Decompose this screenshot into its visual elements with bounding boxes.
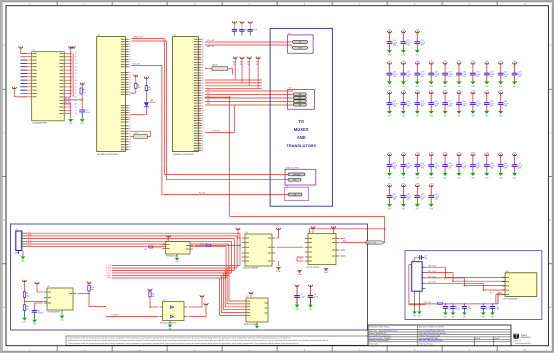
svg-text:10: 10 [202, 39, 204, 41]
svg-text:U4: U4 [246, 232, 248, 234]
svg-text:14: 14 [202, 115, 204, 117]
capacitor C33 0.1uF bypass [401, 153, 412, 180]
svg-text:RN1 22: RN1 22 [213, 65, 218, 67]
svg-text:16: 16 [75, 73, 77, 75]
capacitor C15 box2 [490, 303, 500, 319]
svg-text:PD: PD [285, 185, 288, 187]
power flag above U1 pin1 [19, 46, 27, 53]
svg-text:11: 11 [202, 75, 204, 77]
svg-text:15: 15 [75, 70, 77, 72]
svg-text:12: 12 [202, 70, 204, 72]
ground under U7 [255, 322, 259, 329]
svg-text:OSC_CLK1: OSC_CLK1 [428, 271, 436, 273]
svg-text:17: 17 [202, 148, 204, 150]
section box oscillator [405, 251, 542, 320]
svg-text:11: 11 [129, 66, 131, 68]
svg-text:10: 10 [129, 125, 131, 127]
svg-text:0.1uF: 0.1uF [253, 30, 257, 32]
wire into U9 top-left [149, 297, 158, 308]
ground under U9 [168, 321, 173, 331]
svg-text:2: 2 [421, 272, 422, 274]
svg-text:SN74AVC1T45: SN74AVC1T45 [166, 255, 177, 258]
svg-text:x_TRST: x_TRST [26, 243, 32, 245]
power flag above U1 right bus [69, 46, 76, 53]
svg-text:11: 11 [202, 41, 204, 43]
svg-text:14: 14 [202, 83, 204, 85]
capacitor C18 0.1uF bypass [456, 61, 467, 88]
capacitor C9 at J2 top [415, 255, 428, 261]
svg-text:12: 12 [129, 44, 131, 46]
IC U10 oscillator buffer [502, 271, 537, 301]
svg-text:U2: U2 [98, 35, 100, 37]
capacitor C6 at U5 [32, 303, 43, 320]
ground under J2 loop 2 [417, 291, 422, 317]
svg-text:19: 19 [129, 149, 131, 151]
svg-text:1: 1 [421, 267, 422, 269]
svg-text:SN74LVC125APWR: SN74LVC125APWR [243, 267, 259, 270]
capacitor C30 0.1uF bypass [484, 91, 495, 118]
LED D1 [131, 100, 156, 115]
svg-text:18: 18 [129, 147, 131, 149]
capacitor C43 0.1uF bypass [401, 184, 412, 211]
svg-text:R5: R5 [490, 293, 492, 295]
svg-text:10: 10 [202, 64, 204, 66]
resistor R6 [145, 86, 151, 102]
capacitor C28 0.1uF bypass [456, 91, 467, 118]
svg-text:SD2: SD2 [293, 180, 296, 182]
svg-text:28: 28 [75, 113, 77, 115]
title block [368, 325, 511, 346]
svg-text:14: 14 [129, 49, 131, 51]
svg-text:12: 12 [202, 103, 204, 105]
svg-text:RX_REQ: RX_REQ [65, 102, 72, 104]
svg-text:SHUTDOWN: SHUTDOWN [286, 167, 299, 169]
svg-text:17: 17 [129, 56, 131, 58]
svg-text:11: 11 [202, 108, 204, 110]
IC U6 clock buffer [305, 232, 339, 269]
wire J2 loop [409, 265, 426, 305]
capacitor C23 0.1uF bypass [387, 91, 398, 118]
wire U3 down bus to U6 [205, 96, 385, 242]
section box audio/control [11, 224, 368, 330]
ground under U5 [60, 313, 65, 321]
power flag mid P2 [144, 77, 148, 86]
svg-text:11: 11 [202, 100, 204, 102]
svg-text:19: 19 [202, 62, 204, 64]
wires U3 to pullups [205, 80, 262, 89]
svg-text:SCL: SCL [144, 249, 147, 251]
svg-text:0.1uF: 0.1uF [486, 309, 490, 311]
capacitor C38 0.1uF bypass [470, 153, 481, 180]
IC U2 16-bit transceiver [97, 35, 131, 157]
svg-text:R7 0: R7 0 [135, 132, 138, 134]
svg-text:17: 17 [129, 144, 131, 146]
capacitor C1 0.1uF at U1 [79, 100, 90, 119]
svg-text:10: 10 [202, 98, 204, 100]
svg-text:R11: R11 [240, 62, 243, 64]
svg-text:I2S3: I2S3 [207, 100, 210, 102]
svg-text:16: 16 [129, 119, 131, 121]
svg-text:0.36B_LVTTL: 0.36B_LVTTL [133, 37, 143, 39]
svg-text:12: 12 [202, 110, 204, 112]
svg-text:MUXES: MUXES [294, 127, 309, 132]
svg-text:SN74AVC16T245DGGR: SN74AVC16T245DGGR [173, 153, 194, 156]
capacitor C40 0.1uF bypass [498, 153, 509, 180]
svg-text:13: 13 [129, 133, 131, 135]
capacitor C20 0.1uF bypass [484, 61, 495, 88]
wire U10 bottom to gnd [498, 293, 502, 304]
svg-text:MCLK_OUT: MCLK_OUT [367, 242, 376, 244]
wire caps rail box2 [409, 301, 498, 305]
ground under J1 [19, 251, 26, 263]
wire U3 SCL to I2C [205, 40, 292, 42]
svg-text:10: 10 [129, 39, 131, 41]
capacitor C29 0.1uF bypass [470, 91, 481, 118]
svg-text:13: 13 [202, 80, 204, 82]
svg-text:SN74AVC16T245DGGR: SN74AVC16T245DGGR [97, 153, 118, 156]
svg-text:C13: C13 [467, 306, 470, 308]
svg-text:3: 3 [421, 278, 422, 280]
svg-text:18: 18 [202, 59, 204, 61]
wire into U8 left [144, 246, 161, 251]
resistor R9 [23, 302, 29, 318]
svg-text:C6: C6 [38, 310, 40, 312]
testpoint PD [288, 193, 302, 196]
capacitor C41 0.1uF bypass [512, 153, 523, 180]
IC U5 ESD protection [44, 286, 76, 314]
svg-text:x_TMS: x_TMS [26, 235, 31, 237]
svg-text:C12: C12 [456, 306, 459, 308]
svg-text:11: 11 [202, 133, 204, 135]
capacitor C14 0.1uF bypass [401, 61, 412, 88]
power flag left of U1 [12, 87, 27, 97]
wires J2 to U10 [426, 266, 506, 304]
svg-text:C1: C1 [86, 110, 88, 112]
svg-text:0.1uF: 0.1uF [496, 309, 500, 311]
svg-text:21: 21 [75, 90, 77, 92]
svg-text:CDCLVC1102PW: CDCLVC1102PW [306, 267, 320, 269]
svg-text:14: 14 [202, 49, 204, 51]
power flag above U4 right [276, 228, 280, 238]
svg-text:MCLK: MCLK [343, 241, 347, 243]
svg-text:OSC_CLK0: OSC_CLK0 [428, 266, 436, 268]
svg-text:0.1uF: 0.1uF [467, 309, 471, 311]
wire long TVxTx to U9 [106, 315, 158, 317]
capacitor C26 0.1uF bypass [428, 91, 439, 118]
svg-text:I2S0: I2S0 [207, 89, 210, 91]
wire U1 right vertical bus [70, 53, 73, 97]
svg-text:4: 4 [421, 283, 422, 285]
capacitor C12 0.1uF bypass [414, 30, 425, 57]
svg-text:I2S: I2S [288, 88, 292, 90]
ground under J2 loop [412, 291, 417, 317]
svg-text:CDCLVC1102PWR: CDCLVC1102PWR [503, 298, 518, 300]
svg-text:15: 15 [129, 117, 131, 119]
svg-text:x_TDI: x_TDI [26, 237, 31, 239]
svg-text:OSC_CLK3: OSC_CLK3 [428, 282, 436, 284]
analog ground symbols under U6 [297, 269, 329, 277]
I2S group box [288, 88, 315, 110]
wire U2 to shutdown net A [132, 37, 289, 175]
I2C group box [288, 33, 314, 53]
svg-text:12: 12 [129, 77, 131, 79]
capacitor C35 0.1uF bypass [428, 153, 439, 180]
IC U8 level translator [162, 240, 193, 258]
capacitor C39 0.1uF bypass [484, 153, 495, 180]
svg-text:10: 10 [129, 64, 131, 66]
IC U9 open-drain buffer [159, 300, 187, 325]
testpoint SHUTDOWN1 [288, 173, 305, 176]
U1 left pins with blue wires [20, 53, 36, 96]
svg-text:22: 22 [75, 93, 77, 95]
svg-text:5: 5 [421, 288, 422, 290]
testpoints I2S [293, 93, 306, 107]
svg-text:U6: U6 [309, 232, 311, 234]
svg-text:20: 20 [75, 87, 77, 89]
capacitor C21 0.1uF bypass [498, 61, 509, 88]
resistor R5 [131, 83, 141, 93]
svg-text:19: 19 [129, 94, 131, 96]
svg-text:15: 15 [202, 143, 204, 145]
svg-text:P.02_1.8V: P.02_1.8V [133, 64, 141, 66]
capacitor C11 0.1uF bypass [401, 30, 412, 57]
svg-text:16: 16 [129, 87, 131, 89]
TI logo [513, 334, 531, 345]
capacitor C17 0.1uF bypass [442, 61, 453, 88]
power flag above U6 [311, 226, 315, 233]
wire U6 out with net arrow [341, 241, 385, 245]
svg-text:17: 17 [129, 122, 131, 124]
capacitor C37 0.1uF bypass [456, 153, 467, 180]
svg-text:10: 10 [202, 106, 204, 108]
capacitor C8 [308, 285, 319, 312]
svg-text:16: 16 [202, 88, 204, 90]
net label 1.8V at U6 [297, 257, 304, 261]
svg-text:15: 15 [202, 118, 204, 120]
capacitor C36 0.1uF bypass [442, 153, 453, 180]
svg-text:11: 11 [75, 56, 77, 58]
svg-text:C9: C9 [425, 256, 427, 258]
testpoint SDA [292, 45, 308, 50]
svg-text:0.1uF: 0.1uF [448, 309, 452, 311]
capacitor C24 0.1uF bypass [401, 91, 412, 118]
svg-text:Size: B: Size: B [495, 338, 500, 340]
power flag above U7 [249, 292, 253, 298]
svg-text:PD_1.8V: PD_1.8V [199, 193, 206, 195]
svg-text:16: 16 [129, 141, 131, 143]
capacitor C34 0.1uF bypass [414, 153, 425, 180]
svg-text:15: 15 [202, 52, 204, 54]
svg-text:Designed for: Public Release: Designed for: Public Release [369, 327, 390, 329]
svg-text:19: 19 [129, 61, 131, 63]
connector J2 [412, 260, 426, 291]
testpoint SHUTDOWN2 [288, 178, 301, 181]
capacitor C12 box2 [450, 303, 460, 319]
wire U4 to U6 [277, 246, 304, 248]
capacitor C19 0.1uF bypass [470, 61, 481, 88]
PD group box [285, 185, 309, 200]
svg-text:INSTRUMENTS: INSTRUMENTS [521, 337, 531, 339]
ground under U8 [175, 254, 180, 264]
svg-text:26: 26 [75, 107, 77, 109]
svg-text:R13: R13 [256, 62, 259, 64]
svg-text:C15: C15 [496, 306, 499, 308]
svg-text:23: 23 [75, 97, 77, 99]
capacitor C13 0.1uF bypass [387, 61, 398, 88]
svg-text:R10: R10 [233, 62, 236, 64]
wire R8 to U5 [24, 301, 47, 303]
connector J1 header [15, 229, 26, 255]
svg-text:U7: U7 [247, 296, 249, 298]
svg-text:15: 15 [129, 139, 131, 141]
svg-text:I2C: I2C [288, 33, 292, 35]
svg-text:OSC_CLK2: OSC_CLK2 [428, 276, 436, 278]
svg-text:12: 12 [202, 135, 204, 137]
ground under C6 [32, 320, 37, 326]
capacitor C25 0.1uF bypass [414, 91, 425, 118]
capacitor C44 0.1uF bypass [414, 184, 425, 211]
wire U6 right small [341, 239, 346, 257]
notes text box [66, 336, 378, 345]
svg-text:17: 17 [202, 90, 204, 92]
svg-text:19: 19 [202, 95, 204, 97]
wires U3 to I2S [205, 89, 293, 105]
pullup bank above I2S wires [233, 57, 260, 89]
svg-text:13: 13 [75, 63, 77, 65]
capacitor C42 0.1uF bypass [387, 184, 398, 211]
svg-text:SHTDWN: SHTDWN [293, 174, 301, 176]
IC U7 JTAG buffer [244, 296, 268, 326]
svg-text:19: 19 [202, 128, 204, 130]
capacitor C7 [294, 285, 305, 312]
resistor network RN1 [205, 65, 233, 75]
svg-text:U8: U8 [166, 240, 168, 242]
svg-text:14: 14 [202, 140, 204, 142]
svg-text:TEXAS: TEXAS [521, 334, 528, 337]
svg-text:12: 12 [202, 44, 204, 46]
capacitor C45 0.1uF bypass [428, 184, 439, 211]
power flag above U6 right [331, 226, 335, 233]
svg-text:13: 13 [202, 138, 204, 140]
svg-text:U10: U10 [506, 271, 509, 273]
svg-text:SD_MODE: SD_MODE [212, 131, 219, 133]
capacitor C10 0.1uF bypass [387, 30, 398, 57]
wire U2 to shutdown net B [132, 41, 289, 180]
svg-text:U1: U1 [33, 50, 35, 52]
power flag at U9 right [200, 295, 208, 309]
svg-text:1uF: 1uF [425, 258, 428, 260]
svg-text:SCL_1.8V: SCL_1.8V [207, 40, 214, 42]
svg-text:TPD4E004DRYR: TPD4E004DRYR [47, 312, 61, 314]
svg-text:10k: 10k [152, 296, 155, 298]
svg-text:12: 12 [202, 78, 204, 80]
svg-text:10k: 10k [83, 92, 86, 94]
svg-text:18: 18 [129, 59, 131, 61]
svg-text:12: 12 [75, 60, 77, 62]
svg-text:10k: 10k [26, 296, 29, 298]
svg-text:x_RST: x_RST [26, 245, 31, 247]
svg-text:C14: C14 [486, 306, 489, 308]
svg-text:AND: AND [297, 135, 306, 140]
wire U1 bottom right pins [64, 97, 82, 119]
svg-text:x_TVxTx: x_TVxTx [112, 315, 119, 317]
svg-text:18: 18 [202, 93, 204, 95]
interface box TO MUXES AND TRANSLATORS [270, 28, 332, 206]
svg-text:14: 14 [75, 66, 77, 68]
IC U3 16-bit transceiver [172, 35, 203, 157]
svg-text:13: 13 [202, 46, 204, 48]
ground under R9 [22, 318, 27, 324]
svg-text:11: 11 [129, 74, 131, 76]
resistor R10 pullup [87, 282, 94, 294]
svg-text:25: 25 [75, 103, 77, 105]
bus wires J1 to U7 [25, 232, 246, 316]
svg-text:TO: TO [298, 119, 304, 124]
svg-text:x_TDO: x_TDO [26, 240, 32, 242]
IC U1 TCA6416A I/O expander [32, 50, 64, 125]
svg-text:11: 11 [202, 67, 204, 69]
svg-text:11: 11 [129, 128, 131, 130]
wire U3 SD net [205, 106, 234, 133]
svg-text:12: 12 [129, 110, 131, 112]
svg-text:U9: U9 [163, 300, 165, 302]
svg-text:x_RST: x_RST [106, 278, 111, 280]
IC U4 control buffer [242, 232, 275, 270]
ground under U4 [276, 261, 281, 273]
svg-text:16: 16 [202, 120, 204, 122]
svg-text:470: 470 [148, 89, 151, 91]
svg-text:SN74LVC541APW: SN74LVC541APW [244, 323, 258, 326]
ground under U1 bus [68, 119, 73, 125]
svg-text:0.1uF: 0.1uF [300, 297, 304, 299]
svg-text:TCA6416ARTWR: TCA6416ARTWR [32, 122, 48, 125]
svg-text:16: 16 [202, 145, 204, 147]
svg-text:640-801: 640-801 [150, 102, 156, 104]
svg-text:17: 17 [129, 89, 131, 91]
svg-text:13: 13 [129, 112, 131, 114]
svg-text:16: 16 [129, 54, 131, 56]
svg-text:17: 17 [202, 123, 204, 125]
testpoint SCL [293, 41, 308, 44]
svg-text:SN74LVC2G07DCKR: SN74LVC2G07DCKR [160, 322, 177, 324]
svg-text:10: 10 [75, 53, 77, 55]
capacitor C16 0.1uF bypass [428, 61, 439, 88]
svg-text:U5: U5 [48, 286, 50, 288]
capacitor C31 0.1uF bypass [498, 91, 509, 118]
wire U8 right to bus [195, 244, 241, 247]
svg-text:10k: 10k [26, 309, 29, 311]
svg-text:19: 19 [75, 83, 77, 85]
svg-text:15: 15 [129, 51, 131, 53]
SHUTDOWN group box [285, 167, 316, 185]
resistor R8 [23, 292, 29, 302]
capacitor C32 0.1uF bypass [387, 153, 398, 180]
capacitor trio above I2C [232, 21, 257, 35]
svg-text:0.1uF: 0.1uF [86, 112, 90, 114]
wire U3 SDA to I2C [205, 45, 292, 48]
svg-text:10: 10 [129, 105, 131, 107]
capacitor C15 0.1uF bypass [414, 61, 425, 88]
svg-text:27: 27 [75, 110, 77, 112]
svg-text:I2S1: I2S1 [207, 93, 210, 95]
svg-text:10: 10 [129, 72, 131, 74]
capacitor C14 box2 [481, 303, 491, 319]
resistor R2 pullup at U1 [80, 83, 86, 101]
U1 right pins [60, 53, 77, 115]
svg-text:17: 17 [202, 57, 204, 59]
resistor R7 box [131, 131, 151, 138]
svg-text:18: 18 [75, 80, 77, 82]
